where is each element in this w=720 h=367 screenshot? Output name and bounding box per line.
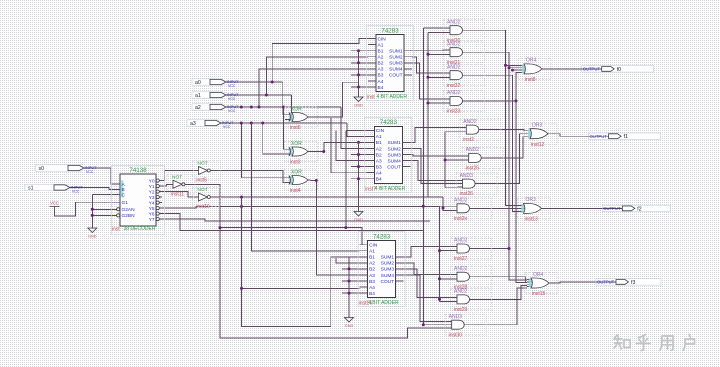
wire C G2 to ground — [91, 195, 93, 229]
svg-text:inst10: inst10 — [196, 204, 210, 210]
svg-text:A4: A4 — [369, 285, 375, 291]
svg-text:SUM2: SUM2 — [381, 261, 395, 267]
xor-gate inst3 — [285, 141, 318, 165]
junction G2BN — [91, 214, 94, 217]
wire adder2 B bus vertical — [358, 142, 360, 207]
svg-text:COUT: COUT — [387, 164, 401, 170]
wire adder2 B stub — [351, 141, 366, 143]
junction R1 f2 — [422, 205, 425, 208]
svg-text:AND2: AND2 — [447, 19, 461, 25]
svg-text:VCC: VCC — [223, 125, 231, 129]
svg-text:NOT: NOT — [197, 161, 207, 167]
wire sum4 to f3 and4 — [404, 275, 447, 322]
wire a2 to adder1 A3 — [259, 69, 368, 107]
wire a2 horizontal — [226, 106, 341, 108]
wire R3 to f3 and1 — [440, 250, 453, 252]
wire or-f3 to output f3 — [553, 282, 617, 283]
wire sum3 to f3 and3 — [404, 269, 452, 297]
wire adder3 B bus vertical — [331, 257, 349, 314]
svg-text:inst14: inst14 — [359, 301, 373, 307]
input pin a0 — [192, 79, 239, 88]
svg-text:SUM3: SUM3 — [381, 267, 395, 273]
wire a1 to adder1 A2 — [266, 57, 368, 95]
wire f3 and3 out — [473, 285, 527, 299]
ground — [354, 208, 363, 223]
wire sum2 to and g3 — [412, 57, 445, 73]
or-gate inst12 — [524, 123, 557, 148]
svg-text:OUTPUT: OUTPUT — [597, 280, 615, 285]
wire a0 to adder1 CIN — [272, 39, 368, 82]
wire R1 branch f2 — [423, 205, 452, 207]
wire adder3 B stub — [342, 256, 360, 258]
svg-text:inst3: inst3 — [290, 159, 301, 165]
xor-gate inst6 — [285, 106, 318, 130]
svg-text:GND: GND — [354, 104, 363, 108]
svg-text:OR4: OR4 — [533, 272, 544, 278]
wire s0 to decoder A — [84, 168, 114, 184]
junction adder1 B — [357, 86, 360, 89]
input pin a3 — [187, 120, 234, 129]
svg-text:inst4: inst4 — [290, 188, 301, 194]
svg-text:inst26: inst26 — [460, 191, 474, 197]
svg-text:AND3: AND3 — [449, 314, 463, 320]
svg-text:inst15: inst15 — [532, 291, 546, 297]
wire rail2 and2-out to f3 — [466, 52, 527, 280]
wire a3 branch to adder3 A1 — [251, 123, 359, 251]
wire sum2 to f3 and2 — [404, 263, 452, 275]
svg-text:inst5: inst5 — [196, 178, 207, 184]
wire R3 to f3 and2 — [440, 278, 453, 280]
svg-text:4 BIT ADDER: 4 BIT ADDER — [375, 186, 406, 192]
and-gate inst27 — [451, 238, 492, 262]
wire a0 horizontal — [226, 81, 283, 83]
svg-text:B4: B4 — [378, 85, 384, 91]
svg-text:4 BIT ADDER: 4 BIT ADDER — [368, 300, 399, 306]
svg-text:B4: B4 — [369, 291, 375, 297]
output pin f2 — [602, 205, 670, 212]
wire vcc to G1 — [55, 202, 115, 216]
wire R1 to and3 f3 — [423, 324, 446, 326]
svg-text:SUM3: SUM3 — [389, 61, 403, 67]
svg-text:SUM1: SUM1 — [389, 49, 403, 55]
wire a1 to xor1 input — [289, 95, 292, 119]
wire sum3 to and g4 — [412, 63, 445, 99]
and-gate inst30 — [445, 314, 486, 338]
svg-text:B3: B3 — [369, 279, 375, 285]
svg-text:A4: A4 — [376, 171, 382, 177]
ground — [345, 314, 354, 329]
wire not3 select line — [212, 196, 443, 198]
input pin a2 — [192, 104, 239, 113]
svg-text:inst12: inst12 — [531, 142, 545, 148]
svg-text:inst2: inst2 — [463, 137, 474, 143]
junction a2 — [257, 106, 260, 109]
svg-text:OUTPUT: OUTPUT — [603, 206, 621, 211]
wire adder3 B stub — [342, 268, 360, 270]
svg-text:SUM4: SUM4 — [381, 273, 395, 279]
svg-text:CIN: CIN — [376, 128, 385, 134]
junction adder3 B — [348, 292, 351, 295]
wire sum3 to f1 and2 — [410, 155, 463, 156]
svg-text:f1: f1 — [624, 134, 628, 140]
wire Y5 select line — [162, 207, 440, 209]
svg-text:A1: A1 — [369, 249, 375, 255]
or-gate inst8 — [518, 58, 551, 83]
wire a3 to adder2 A1 — [347, 123, 366, 136]
wire adder2 CIN stub — [346, 129, 366, 131]
svg-text:74283: 74283 — [381, 27, 399, 34]
wire sum4 to f1 and3a — [410, 161, 457, 181]
wire R5 to f1 and3 — [445, 187, 458, 189]
wire f2 and to or-f2 — [473, 207, 520, 209]
svg-text:inst11: inst11 — [171, 192, 184, 198]
wire Y2 to not3 — [162, 192, 193, 197]
wire adder1 B stub — [351, 86, 368, 88]
wire rail1 branch to or-f0 in1 — [506, 64, 521, 66]
output pin f3 — [596, 279, 661, 286]
svg-text:AND2: AND2 — [454, 266, 468, 272]
svg-text:VCC: VCC — [228, 97, 236, 101]
svg-text:G1: G1 — [122, 200, 129, 206]
wire R1 lower — [422, 231, 424, 325]
wire to adder2 A3 — [336, 130, 366, 160]
svg-text:f0: f0 — [617, 67, 621, 73]
3-to-8 decoder inst 74138 — [112, 166, 165, 235]
junction a3 c — [261, 122, 264, 125]
svg-text:GND: GND — [345, 324, 354, 328]
wire f1 and2 to or — [485, 137, 526, 158]
svg-text:AND2: AND2 — [466, 147, 480, 153]
wire f3 and4 out — [468, 288, 527, 325]
svg-text:G2AN: G2AN — [122, 207, 136, 213]
svg-text:VCC: VCC — [228, 109, 236, 113]
svg-text:INPUT: INPUT — [85, 166, 97, 170]
junction select y197 — [240, 196, 243, 199]
wire Y0 to not1 — [162, 171, 193, 181]
watermark zhihu user — [614, 335, 695, 351]
svg-text:A3: A3 — [369, 273, 375, 279]
wire select rail R3 — [439, 207, 441, 302]
svg-text:Y5: Y5 — [149, 206, 155, 212]
svg-text:Y4: Y4 — [149, 200, 155, 206]
svg-text:A2: A2 — [376, 146, 382, 152]
wire to adder2 A4 — [331, 118, 366, 173]
wire R2 branch — [428, 102, 445, 104]
svg-text:B: B — [122, 187, 125, 193]
svg-text:B1: B1 — [369, 255, 375, 261]
svg-text:74283: 74283 — [380, 119, 398, 126]
not-gate inst11 — [167, 175, 195, 198]
svg-text:B1: B1 — [378, 49, 384, 55]
svg-text:a1: a1 — [195, 93, 201, 99]
wire select rail R1 — [422, 28, 424, 231]
junction adder2 B1 — [357, 141, 360, 144]
wire Y7 select line — [162, 219, 430, 221]
wire R2 branch — [428, 53, 445, 55]
wire sum1 to f3 and1 — [404, 246, 452, 256]
svg-text:A2: A2 — [378, 55, 384, 61]
junction adder3 B — [348, 267, 351, 270]
svg-text:a0: a0 — [195, 80, 201, 86]
svg-text:B3: B3 — [376, 164, 382, 170]
junction R2 c — [427, 102, 430, 105]
wire rail1 and1-out to or-f0/f2 — [466, 30, 520, 205]
4-bit adder inst 74283 — [367, 26, 414, 101]
wire xor3 out — [311, 180, 317, 182]
svg-text:Y1: Y1 — [149, 184, 155, 190]
svg-text:A1: A1 — [376, 134, 382, 140]
wire and4-out to or-f0 in4 — [466, 73, 520, 101]
wire R5 to f1 and1 — [445, 131, 461, 133]
wire R3 to f3 and3 — [440, 301, 453, 303]
svg-text:s1: s1 — [28, 185, 34, 191]
wire Y6 select line — [162, 214, 423, 231]
input pin a1 — [192, 92, 239, 101]
junction R2 a — [427, 53, 430, 56]
wire not2 select rail — [187, 184, 447, 338]
and-gate inst2x — [451, 198, 492, 222]
wire adder3 B stub — [342, 292, 360, 294]
svg-text:A3: A3 — [376, 158, 382, 164]
wire select rail to adder3 B1 — [242, 197, 360, 326]
junction a1 — [265, 94, 268, 97]
svg-text:SUM1: SUM1 — [381, 255, 395, 261]
svg-text:74138: 74138 — [129, 167, 147, 174]
wire adder3 B stub — [342, 280, 360, 282]
svg-text:INPUT: INPUT — [227, 105, 239, 109]
svg-text:AND2: AND2 — [454, 238, 468, 244]
svg-text:C: C — [122, 192, 126, 198]
svg-text:SUM2: SUM2 — [389, 55, 403, 61]
wire or-f1 to output f1 — [552, 134, 609, 137]
svg-text:NOT: NOT — [172, 175, 182, 181]
wire xor3 branch to adder3 A3 — [316, 181, 359, 275]
svg-text:inst29: inst29 — [454, 307, 468, 313]
svg-text:B2: B2 — [378, 61, 384, 67]
input pin s0 — [36, 165, 98, 174]
wire to adder3 A4 — [242, 287, 360, 289]
junction adder2 B — [357, 177, 360, 180]
svg-text:AND2: AND2 — [463, 119, 477, 125]
svg-text:SUM2: SUM2 — [387, 146, 401, 152]
wire adder2 B stub — [351, 178, 366, 180]
junction adder3 B — [348, 280, 351, 283]
wire f3 and1 out to rail2 — [473, 248, 509, 250]
junction xor2 out — [322, 150, 325, 153]
svg-text:inst: inst — [112, 227, 120, 233]
junction adder1 B — [357, 61, 360, 64]
wire to decoder C — [92, 194, 114, 196]
svg-text:XOR: XOR — [291, 169, 302, 175]
wire select to f2 and in2 — [443, 197, 452, 210]
wire adder1 B stub — [351, 62, 368, 64]
wire R2 to and1 in2 — [428, 31, 445, 33]
wire a2 to adder2 A2 — [341, 107, 366, 149]
junction select y206 — [240, 205, 243, 208]
wire s1 to decoder B — [70, 188, 114, 190]
wire rail3 and3-out — [466, 75, 520, 211]
svg-text:INPUT: INPUT — [227, 80, 239, 84]
wire sum2 to f1 and3b — [410, 149, 457, 184]
output pin f0 — [582, 66, 654, 73]
svg-text:inst: inst — [367, 95, 375, 101]
svg-text:inst22: inst22 — [447, 83, 461, 89]
output pin f1 — [589, 133, 661, 140]
wire rail4 to f3 — [516, 101, 527, 283]
wire f3 and2 out — [473, 277, 526, 283]
wire to adder3 CIN — [220, 228, 362, 245]
junction a0 — [271, 81, 274, 84]
or-gate inst13 — [518, 197, 551, 222]
svg-text:a2: a2 — [195, 105, 201, 111]
junction G2AN — [91, 208, 94, 211]
wire G2AN — [92, 208, 114, 210]
svg-text:AND2: AND2 — [454, 289, 468, 295]
junction not2 rail CIN — [219, 226, 222, 229]
junction select f2 — [442, 207, 445, 210]
4-bit adder inst14 74283 — [358, 232, 405, 307]
svg-text:inst13: inst13 — [525, 217, 539, 223]
svg-text:XOR: XOR — [291, 141, 302, 147]
svg-text:Y6: Y6 — [149, 211, 155, 217]
junction adder2 B — [357, 165, 360, 168]
svg-text:OUTPUT: OUTPUT — [583, 67, 601, 72]
wire rail3 branch or-f0 in3 — [513, 69, 521, 71]
wire a0 to xor1 input — [283, 82, 289, 115]
svg-text:A4: A4 — [378, 79, 384, 85]
svg-text:GND: GND — [88, 235, 97, 239]
or-gate inst15 — [525, 272, 558, 297]
svg-text:OR3: OR3 — [526, 197, 537, 203]
wire Y1 to not2 — [162, 184, 168, 186]
vcc power symbol — [50, 201, 60, 211]
svg-text:COUT: COUT — [389, 73, 403, 79]
svg-text:Y2: Y2 — [149, 189, 155, 195]
wire adder2 B stub — [351, 166, 366, 168]
svg-text:inst2x: inst2x — [454, 216, 468, 222]
wire adder1 B bus vertical — [358, 51, 360, 93]
svg-text:Y7: Y7 — [149, 217, 155, 223]
svg-text:VCC: VCC — [50, 201, 59, 206]
and-gate inst28 — [451, 266, 492, 290]
svg-text:A1: A1 — [378, 42, 384, 48]
wire or-f0 to output f0 — [546, 68, 602, 70]
wire G2BN — [92, 214, 114, 216]
junction a3 b — [250, 122, 253, 125]
not-gate inst10 — [192, 187, 220, 210]
svg-text:inst27: inst27 — [454, 256, 468, 262]
and-gate inst21 — [444, 41, 485, 65]
svg-text:38 DECODER: 38 DECODER — [124, 226, 156, 232]
junction CIN select — [344, 226, 347, 229]
svg-text:VCC: VCC — [228, 84, 236, 88]
svg-text:inst23: inst23 — [447, 109, 461, 115]
junction a2 b — [250, 106, 253, 109]
svg-text:inst8: inst8 — [525, 77, 536, 83]
wire a3 to xor2 input — [263, 123, 289, 154]
junction R2 b — [427, 76, 430, 79]
and-gate inst29 — [451, 289, 492, 313]
not-gate inst5 — [192, 161, 220, 184]
svg-text:GND: GND — [354, 218, 363, 222]
junction A4 row — [240, 287, 243, 290]
svg-text:SUM1: SUM1 — [387, 140, 401, 146]
svg-text:OR4: OR4 — [526, 58, 537, 64]
svg-text:f2: f2 — [637, 206, 641, 212]
svg-text:A2: A2 — [369, 261, 375, 267]
and-gate inst26 — [456, 173, 497, 197]
svg-text:AND3: AND3 — [460, 173, 474, 179]
wire or-f2 to output f2 — [545, 207, 622, 209]
4-bit adder inst7 74283 — [365, 117, 412, 192]
wire xor2 to adder2 B bus — [311, 142, 359, 151]
svg-text:SUM4: SUM4 — [389, 67, 403, 73]
junction rail4 — [515, 99, 518, 102]
svg-text:VCC: VCC — [86, 170, 94, 174]
svg-text:CIN: CIN — [369, 243, 378, 249]
wire adder1 B stub — [351, 74, 368, 76]
xor-gate inst4 — [285, 169, 318, 193]
junction a3 a — [240, 122, 243, 125]
wire R5 to f1 and2 — [445, 159, 464, 161]
wire a1 horizontal — [226, 94, 292, 96]
svg-text:CIN: CIN — [378, 36, 387, 42]
svg-text:B4: B4 — [376, 177, 382, 183]
svg-text:inst30: inst30 — [449, 332, 463, 338]
junction adder1 B — [357, 73, 360, 76]
junction rail3 or-f0 — [511, 69, 514, 72]
stub — [225, 81, 227, 83]
svg-text:INPUT: INPUT — [71, 185, 83, 189]
svg-text:VCC: VCC — [72, 190, 80, 194]
wire xor1 to adder1 B bus — [311, 82, 359, 117]
wire adder1 B stub — [351, 50, 368, 52]
ground — [88, 224, 97, 239]
and-gate inst23 — [444, 90, 485, 114]
svg-text:Y3: Y3 — [149, 195, 155, 201]
svg-text:a3: a3 — [190, 121, 196, 127]
svg-text:OUTPUT: OUTPUT — [590, 134, 608, 139]
and-gate inst20 — [444, 19, 485, 43]
svg-text:INPUT: INPUT — [222, 121, 234, 125]
svg-text:AND2: AND2 — [447, 41, 461, 47]
junction rail1 or-f0 — [504, 64, 507, 67]
and-gate inst2 — [460, 119, 501, 143]
svg-text:inst6: inst6 — [290, 125, 301, 131]
and-gate inst25 — [462, 147, 503, 171]
svg-text:COUT: COUT — [381, 279, 395, 285]
wire select rail R2 — [427, 32, 429, 197]
wire not1 to xor3 — [212, 171, 289, 183]
wire R1 to and1 in1 — [423, 27, 445, 29]
svg-text:B1: B1 — [376, 140, 382, 146]
svg-text:4 BIT ADDER: 4 BIT ADDER — [377, 94, 408, 100]
junction adder1 B1 — [357, 49, 360, 52]
junction a2 c — [240, 106, 243, 109]
svg-text:s0: s0 — [39, 166, 45, 172]
svg-text:NOT: NOT — [197, 187, 207, 193]
svg-text:f3: f3 — [631, 280, 635, 286]
svg-text:G2BN: G2BN — [122, 213, 136, 219]
wire R2 branch — [428, 76, 445, 78]
svg-text:INPUT: INPUT — [227, 93, 239, 97]
svg-text:SUM4: SUM4 — [387, 158, 401, 164]
junction R5 — [444, 159, 447, 162]
svg-text:inst25: inst25 — [466, 166, 480, 172]
wire select to adder2 CIN — [345, 130, 347, 227]
svg-text:B2: B2 — [376, 152, 382, 158]
junction R3 b — [438, 277, 441, 280]
